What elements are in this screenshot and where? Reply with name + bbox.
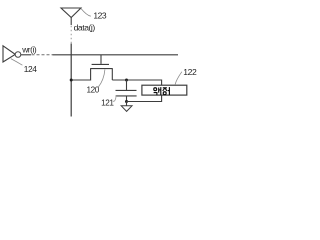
inverter 124 (gate driver triangle)	[3, 46, 15, 62]
wire: data line vertical, main solid segment down to bottom	[70, 44, 72, 117]
leader line to label 122	[175, 72, 182, 85]
transistor 120: gate bar	[92, 63, 109, 65]
ground symbol (open triangle)	[121, 106, 132, 112]
leader line to label 123	[81, 8, 91, 16]
junction: capacitor bottom / common node	[125, 100, 128, 103]
svg-text:122: 122	[183, 67, 197, 77]
amplifier 123 (data driver, inverted open triangle)	[61, 8, 81, 18]
capacitor 121: top plate	[116, 89, 137, 91]
svg-text:124: 124	[24, 64, 38, 74]
capacitor 121: bottom plate	[116, 95, 137, 97]
svg-text:123: 123	[93, 11, 106, 21]
wire: common node to LC cell bottom, rises into box bottom	[127, 95, 162, 101]
svg-text:121: 121	[101, 99, 114, 108]
label hangul 액 (liquid) inside box	[154, 87, 161, 95]
wire: data line vertical, dashed segment	[70, 26, 72, 44]
wire: data line vertical, solid upper segment	[70, 18, 72, 26]
svg-text:120: 120	[87, 86, 100, 95]
junction: data line to TFT source	[70, 79, 73, 82]
inverter 124 output bubble	[15, 52, 21, 58]
transistor 120: source lead and foot wire to data line	[71, 69, 90, 80]
wire: wr(i) row line, solid left segment from bubble	[21, 54, 31, 56]
wire: drain wire to LC cell, turns down into box top	[112, 80, 161, 85]
transistor 120: drain lead	[111, 69, 113, 80]
ground symbol stub	[126, 102, 128, 106]
capacitor 121: top lead	[126, 80, 128, 90]
transistor 120: channel bar	[90, 68, 113, 70]
wire: wr(i) row line, dashed segment	[32, 54, 53, 56]
label hangul 정 (crystal) inside box	[163, 87, 170, 95]
leader line to label 124	[11, 59, 23, 66]
liquid crystal cell box 122	[142, 85, 187, 95]
wire: wr(i) row line, main solid segment to the right	[53, 54, 179, 56]
transistor 120: gate lead from wr line	[100, 55, 102, 64]
capacitor 121: bottom lead	[126, 96, 128, 102]
svg-text:data(j): data(j)	[74, 22, 96, 32]
svg-text:wr(i): wr(i)	[21, 44, 37, 54]
leader line to label 121	[113, 96, 116, 102]
leader line to label 120	[98, 70, 105, 88]
junction: storage capacitor node on drain wire	[125, 79, 128, 82]
